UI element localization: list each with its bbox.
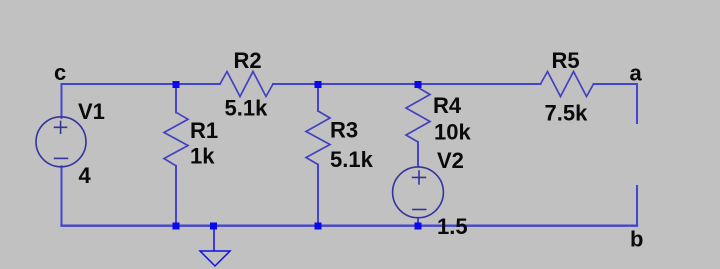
svg-text:b: b bbox=[630, 227, 643, 252]
svg-text:R1: R1 bbox=[190, 118, 218, 143]
svg-text:c: c bbox=[54, 60, 66, 85]
svg-text:7.5k: 7.5k bbox=[545, 101, 589, 126]
svg-text:1.5: 1.5 bbox=[437, 214, 468, 239]
svg-text:5.1k: 5.1k bbox=[330, 147, 374, 172]
svg-text:1k: 1k bbox=[190, 144, 215, 169]
svg-text:R4: R4 bbox=[433, 93, 462, 118]
svg-text:R2: R2 bbox=[234, 48, 262, 73]
svg-text:4: 4 bbox=[79, 163, 92, 188]
svg-text:R5: R5 bbox=[552, 48, 580, 73]
svg-text:R3: R3 bbox=[330, 118, 358, 143]
svg-text:V2: V2 bbox=[437, 148, 464, 173]
svg-text:V1: V1 bbox=[78, 99, 105, 124]
svg-text:a: a bbox=[630, 60, 643, 85]
svg-text:5.1k: 5.1k bbox=[225, 96, 269, 121]
svg-text:10k: 10k bbox=[434, 120, 471, 145]
